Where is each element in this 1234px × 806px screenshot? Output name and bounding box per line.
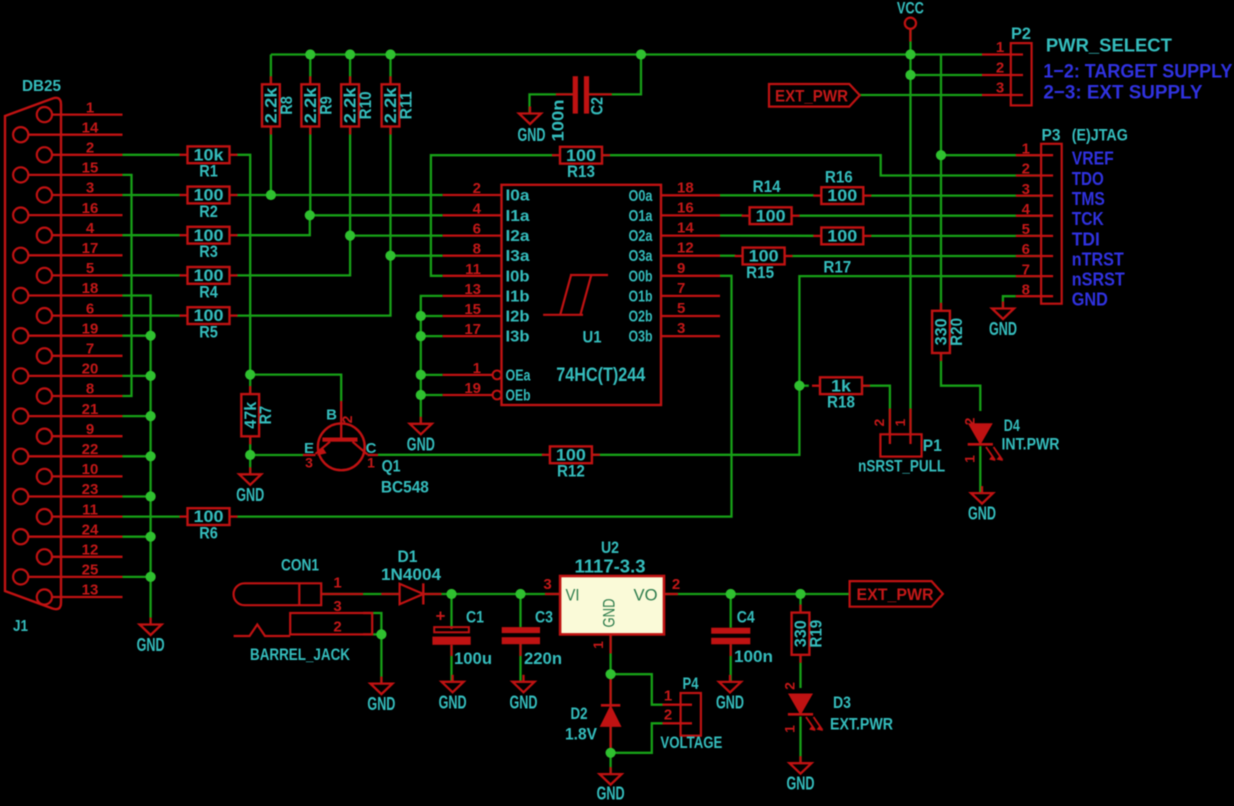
svg-text:1.8V: 1.8V: [565, 725, 598, 744]
svg-text:3: 3: [543, 576, 551, 593]
wire D4 cathode to ground: [979, 446, 981, 493]
svg-text:2: 2: [333, 619, 341, 636]
svg-text:O3a: O3a: [629, 248, 653, 265]
svg-text:14: 14: [82, 119, 99, 136]
wire R7 bottom to ground: [249, 436, 251, 475]
svg-text:13: 13: [464, 281, 481, 298]
svg-text:2: 2: [782, 682, 798, 690]
svg-text:C1: C1: [466, 608, 484, 627]
svg-text:3: 3: [1022, 181, 1030, 198]
svg-text:15: 15: [464, 301, 481, 318]
wire R13 left to I0b loopback: [431, 155, 556, 276]
LED D4: [962, 416, 1060, 463]
zener diode D2: [565, 674, 620, 753]
svg-text:1: 1: [996, 39, 1004, 56]
ground below D4: [968, 486, 996, 523]
svg-text:20: 20: [82, 361, 99, 378]
J1 pin 16: [13, 200, 122, 223]
wire R3 up to I1a net: [237, 215, 310, 235]
J1 pin 25: [13, 562, 122, 585]
svg-text:100: 100: [827, 186, 857, 205]
resistor R12: [542, 445, 600, 480]
svg-text:2: 2: [996, 60, 1004, 77]
J1 pin 1: [37, 99, 123, 122]
J1 pin 21: [13, 401, 122, 424]
ground below OE lines: [407, 417, 435, 455]
svg-text:O2a: O2a: [629, 228, 653, 245]
wire DB25 pin19 to ground bus: [123, 335, 151, 337]
wire R12 to nSRST net: [592, 276, 1041, 455]
svg-text:+: +: [436, 607, 446, 626]
resistor R17: [813, 227, 871, 277]
svg-text:3: 3: [333, 598, 341, 615]
svg-text:9: 9: [86, 421, 94, 438]
svg-text:VOLTAGE: VOLTAGE: [660, 734, 722, 752]
svg-text:GND: GND: [407, 433, 435, 454]
wire VCC symbol to rail: [909, 30, 911, 55]
svg-text:6: 6: [86, 300, 94, 317]
J1 pin 15: [13, 160, 122, 183]
svg-text:8: 8: [1022, 281, 1030, 298]
svg-text:nSRST: nSRST: [1072, 270, 1125, 290]
svg-text:GND: GND: [716, 691, 744, 712]
svg-text:U2: U2: [601, 538, 619, 557]
svg-text:R7: R7: [256, 406, 275, 425]
regulator U2 1117-3.3: [543, 538, 680, 654]
svg-text:23: 23: [82, 481, 99, 498]
wire R8 bottom: [270, 127, 272, 196]
svg-text:21: 21: [82, 401, 99, 418]
svg-text:8: 8: [86, 381, 94, 398]
svg-text:100n: 100n: [734, 647, 773, 666]
capacitor C2: [550, 76, 612, 141]
svg-text:GND: GND: [367, 693, 395, 714]
svg-text:1: 1: [782, 725, 798, 733]
svg-text:P2: P2: [1011, 25, 1031, 43]
wire power rail CON1 to D1: [321, 593, 399, 595]
svg-text:7: 7: [677, 280, 685, 297]
wire R19 top stub: [799, 594, 801, 613]
J1 pin 2: [37, 140, 123, 163]
svg-text:GND: GND: [968, 503, 996, 524]
resistor R8: [262, 76, 296, 134]
wire C4 top stub: [730, 594, 732, 628]
svg-text:1: 1: [1022, 140, 1030, 157]
wire I1a: [310, 214, 443, 216]
wire D1 to U2 VI: [423, 593, 560, 595]
svg-text:1−2: TARGET SUPPLY: 1−2: TARGET SUPPLY: [1043, 61, 1232, 83]
wire DB25 pin24 to ground bus: [123, 536, 151, 538]
resistor R1: [180, 145, 238, 180]
svg-text:TDO: TDO: [1072, 169, 1104, 189]
svg-text:VI: VI: [566, 586, 580, 605]
svg-text:P3: P3: [1042, 127, 1061, 145]
wire DB25 pin25 to ground bus: [123, 576, 151, 578]
svg-text:O1b: O1b: [629, 288, 653, 305]
wire R16 to TMS: [871, 194, 1041, 196]
svg-text:I2b: I2b: [506, 309, 530, 326]
wire R5 up to I3a net: [237, 256, 391, 316]
svg-text:5: 5: [677, 300, 685, 317]
wire R15 to nTRST: [792, 255, 1042, 257]
wire DB25 pin5 to R4: [123, 274, 181, 276]
junction: [416, 331, 426, 341]
svg-text:5: 5: [86, 260, 94, 277]
wire OEa tap: [421, 374, 443, 376]
svg-text:I3a: I3a: [506, 248, 530, 265]
wire O2a to R17: [720, 234, 814, 236]
svg-text:B: B: [326, 407, 337, 424]
junction: [794, 381, 804, 391]
svg-text:R6: R6: [199, 524, 218, 543]
svg-text:VCC: VCC: [897, 0, 924, 18]
svg-text:VO: VO: [634, 586, 658, 605]
svg-text:R20: R20: [947, 318, 966, 346]
wire U2 GND pin through D2: [609, 634, 611, 774]
svg-text:R4: R4: [199, 282, 218, 301]
junction: [305, 210, 315, 220]
svg-text:R2: R2: [199, 202, 218, 221]
svg-text:D4: D4: [1004, 416, 1020, 435]
wire VCC rail down to P1 pin1: [909, 55, 911, 435]
svg-text:CON1: CON1: [281, 557, 319, 575]
svg-text:R15: R15: [746, 263, 774, 282]
svg-text:R8: R8: [277, 96, 296, 115]
junction: [795, 589, 805, 599]
wire O1a to R14: [720, 214, 743, 216]
svg-text:D3: D3: [833, 693, 851, 712]
svg-text:C2: C2: [589, 97, 607, 115]
svg-text:I2a: I2a: [506, 228, 530, 245]
svg-text:19: 19: [464, 380, 481, 397]
svg-text:3: 3: [996, 80, 1004, 97]
wire C3 top stub: [519, 594, 521, 627]
junction: [345, 231, 355, 241]
svg-text:P4: P4: [683, 675, 700, 693]
svg-text:2: 2: [86, 140, 94, 157]
wire DB25 pin3 to R2: [123, 194, 181, 196]
diode D1 1N4004: [381, 547, 442, 605]
svg-text:GND: GND: [1072, 290, 1108, 310]
svg-text:nTRST: nTRST: [1072, 250, 1124, 270]
connector P4 VOLTAGE: [660, 675, 722, 752]
wire DB25 pin6 to R5: [123, 314, 181, 316]
svg-text:R9: R9: [316, 96, 335, 115]
svg-text:R3: R3: [199, 242, 218, 261]
capacitor C3: [502, 608, 562, 669]
svg-text:9: 9: [677, 260, 685, 277]
wire Q1 collector to R12: [378, 454, 544, 456]
junction: [385, 251, 395, 261]
J1 pin 11: [37, 501, 123, 524]
svg-text:11: 11: [465, 261, 481, 278]
wire R18 left stub: [799, 385, 808, 387]
svg-text:1: 1: [367, 455, 375, 471]
wire I2a: [350, 234, 443, 236]
resistor R15: [735, 247, 793, 282]
svg-text:2: 2: [871, 418, 887, 426]
svg-text:O1a: O1a: [629, 208, 653, 225]
J1 pin 3: [37, 180, 123, 203]
svg-text:16: 16: [677, 199, 694, 216]
svg-text:EXT_PWR: EXT_PWR: [775, 87, 848, 106]
resistor R11: [382, 76, 416, 134]
wire C3 bottom to ground: [519, 644, 521, 682]
svg-text:5: 5: [1022, 221, 1030, 238]
ground below DB25 bus: [137, 618, 165, 656]
wire Q1 emitter: [250, 454, 303, 456]
svg-text:1: 1: [664, 688, 672, 705]
wire R6 to O0b: [237, 276, 732, 517]
wire DB25 pin21 to ground bus: [123, 415, 151, 417]
resistor R3: [180, 226, 238, 261]
junction: [146, 532, 156, 542]
global label EXT_PWR bottom: [850, 581, 943, 607]
wire C1 bottom to ground: [450, 645, 452, 682]
wire I2b tap: [421, 315, 443, 317]
svg-text:1: 1: [892, 418, 908, 426]
svg-text:100: 100: [827, 227, 857, 246]
wire VCC top rail: [271, 53, 982, 55]
resistor R14: [742, 177, 800, 226]
svg-text:(E)JTAG: (E)JTAG: [1072, 127, 1128, 145]
svg-text:I3b: I3b: [506, 329, 530, 346]
svg-text:2: 2: [1022, 161, 1030, 178]
wire C2 left to ground: [530, 94, 573, 113]
ground below C3: [510, 675, 538, 713]
junction: [515, 589, 525, 599]
svg-text:1: 1: [333, 575, 341, 592]
junction: [245, 450, 255, 460]
J1 pin 14: [13, 119, 122, 142]
ground below D2: [597, 767, 625, 804]
junction: [245, 370, 255, 380]
wire CON1 switch pins to ground: [372, 613, 381, 684]
svg-text:220n: 220n: [524, 649, 562, 668]
svg-text:7: 7: [86, 341, 94, 358]
svg-text:3: 3: [677, 320, 685, 337]
resistor R20: [932, 303, 966, 361]
resistor R19: [792, 605, 826, 663]
svg-text:17: 17: [464, 321, 481, 338]
svg-text:R18: R18: [827, 393, 855, 412]
wire R18 right to P1 pin2: [863, 386, 890, 435]
svg-text:DB25: DB25: [22, 78, 61, 95]
junction: [146, 371, 156, 381]
junction: [146, 451, 156, 461]
resistor R2: [180, 186, 238, 221]
svg-text:GND: GND: [518, 124, 546, 145]
svg-text:U1: U1: [583, 328, 602, 347]
wire R17 to TDI: [871, 235, 1041, 237]
svg-text:TCK: TCK: [1072, 209, 1104, 229]
svg-text:R1: R1: [199, 162, 218, 181]
resistor R10: [341, 76, 375, 134]
J1 pin 7: [37, 341, 123, 364]
svg-text:C3: C3: [535, 608, 553, 627]
wire R11 top stub: [389, 55, 391, 85]
wire R8 top stub: [270, 55, 272, 85]
svg-text:6: 6: [1022, 241, 1030, 258]
svg-text:R16: R16: [825, 168, 853, 187]
J1 pin 5: [37, 260, 123, 283]
svg-text:D1: D1: [398, 547, 418, 566]
wire I3a: [391, 255, 443, 257]
LED D3: [782, 682, 893, 734]
resistor R6: [180, 507, 238, 542]
connector CON1 barrel jack: [234, 557, 373, 665]
svg-text:4: 4: [473, 200, 482, 217]
svg-text:14: 14: [677, 220, 694, 237]
svg-text:11: 11: [82, 501, 98, 518]
junction: [266, 190, 276, 200]
ground below C2: [519, 107, 541, 125]
wire R14 to TCK: [799, 215, 1042, 217]
junction: [636, 49, 646, 59]
svg-text:100u: 100u: [454, 649, 492, 668]
wire R9 top stub: [309, 55, 311, 85]
wire R10 bottom: [349, 127, 351, 236]
ground below R7: [236, 467, 264, 505]
wire DB25 pin15 to pin8: [123, 175, 132, 396]
wire DB25 pin18 ground bus: [123, 296, 151, 618]
svg-text:BARREL_JACK: BARREL_JACK: [250, 646, 350, 664]
svg-text:18: 18: [82, 280, 99, 297]
J1 pin 4: [37, 220, 123, 243]
svg-text:D2: D2: [571, 704, 588, 723]
connector P1 nSRST_PULL: [858, 409, 945, 476]
J1 pin 6: [37, 300, 123, 323]
svg-text:C4: C4: [737, 608, 755, 627]
wire R11 bottom: [389, 127, 391, 256]
svg-text:12: 12: [82, 542, 99, 559]
power symbol VCC: [897, 0, 924, 42]
svg-text:13: 13: [82, 582, 99, 599]
svg-text:18: 18: [677, 179, 694, 196]
svg-text:1: 1: [962, 455, 978, 463]
wire U2 VO to EXT_PWR: [664, 593, 850, 595]
svg-text:GND: GND: [597, 783, 625, 801]
J1 pin 8: [37, 381, 123, 404]
svg-text:R5: R5: [199, 323, 218, 342]
svg-text:16: 16: [82, 200, 99, 217]
svg-text:R17: R17: [823, 257, 851, 276]
wire R1 to Q1 base net: [237, 155, 251, 375]
connector P3 (E)JTAG: [1016, 127, 1128, 310]
svg-text:EXT_PWR: EXT_PWR: [857, 585, 934, 604]
junction: [345, 49, 355, 59]
junction: [146, 572, 156, 582]
svg-text:15: 15: [82, 160, 99, 177]
J1 pin 9: [37, 421, 123, 444]
svg-text:2: 2: [664, 707, 672, 724]
junction: [146, 331, 156, 341]
J1 pin 24: [13, 521, 122, 544]
svg-text:R13: R13: [567, 162, 595, 181]
svg-text:R14: R14: [753, 177, 781, 196]
wire R20 bottom to D4: [941, 353, 980, 411]
svg-text:PWR_SELECT: PWR_SELECT: [1046, 35, 1173, 56]
wire R7 top stub: [249, 375, 251, 395]
svg-text:OEb: OEb: [506, 388, 531, 405]
junction: [385, 49, 395, 59]
svg-text:nSRST_PULL: nSRST_PULL: [858, 458, 945, 476]
junction: [936, 150, 946, 160]
J1 pin 19: [13, 320, 122, 343]
svg-text:4: 4: [1022, 201, 1031, 218]
junction: [416, 390, 426, 400]
J1 pin 13: [37, 582, 123, 605]
capacitor C4: [711, 608, 773, 667]
wire EXT_PWR to P2 pin3: [860, 94, 982, 96]
wire C4 bottom to ground: [730, 644, 732, 682]
wire OEb tap: [421, 394, 443, 396]
svg-text:2: 2: [473, 180, 481, 197]
resistor R9: [301, 76, 335, 134]
svg-text:I1a: I1a: [506, 208, 530, 225]
svg-text:4: 4: [86, 220, 95, 237]
junction: [905, 70, 915, 80]
svg-text:GND: GND: [137, 634, 165, 655]
svg-text:GND: GND: [510, 691, 538, 712]
svg-text:R19: R19: [807, 620, 826, 648]
junction: [146, 491, 156, 501]
junction: [905, 49, 915, 59]
svg-text:GND: GND: [600, 599, 619, 628]
ground below D3: [787, 756, 815, 794]
svg-text:19: 19: [82, 320, 99, 337]
transistor Q1 BC548: [303, 401, 429, 497]
wire DB25 pin11 to R6: [123, 515, 181, 517]
svg-text:R11: R11: [397, 91, 416, 119]
wire C2 right branch: [589, 55, 641, 95]
connector P2 PWR_SELECT: [982, 25, 1232, 105]
wire R9 bottom: [309, 127, 311, 216]
J1 pin 22: [13, 441, 122, 464]
resistor R7: [241, 386, 275, 444]
svg-text:I1b: I1b: [506, 288, 530, 305]
wire VCC to P2 pin2: [911, 74, 983, 76]
svg-text:25: 25: [82, 562, 99, 579]
svg-text:2: 2: [339, 415, 355, 423]
svg-text:2−3: EXT SUPPLY: 2−3: EXT SUPPLY: [1043, 82, 1202, 104]
svg-text:GND: GND: [236, 484, 264, 505]
svg-text:O0a: O0a: [629, 188, 653, 205]
junction: [606, 748, 616, 758]
ground below C4: [716, 675, 744, 713]
svg-text:O3b: O3b: [629, 329, 653, 346]
junction: [376, 629, 386, 639]
wire I3b tap: [421, 335, 443, 337]
resistor R18: [812, 376, 870, 411]
wire P4 pin1 net: [611, 674, 663, 705]
wire R4 up to I2a net: [237, 236, 351, 276]
wire P3 pin8 to ground: [1003, 296, 1016, 308]
svg-text:100: 100: [756, 206, 786, 225]
svg-text:I0a: I0a: [506, 188, 530, 205]
resistor R13: [552, 146, 610, 181]
svg-text:12: 12: [677, 240, 694, 257]
svg-text:J1: J1: [13, 618, 28, 635]
wire O3a to R15: [720, 255, 736, 257]
wire I1b ground net vertical: [421, 296, 443, 424]
svg-text:O2b: O2b: [629, 309, 653, 326]
svg-text:OEa: OEa: [506, 367, 531, 384]
junction: [305, 49, 315, 59]
wire R13 right to TDO: [602, 155, 1041, 175]
svg-text:1N4004: 1N4004: [381, 565, 442, 584]
svg-text:R10: R10: [356, 91, 375, 119]
